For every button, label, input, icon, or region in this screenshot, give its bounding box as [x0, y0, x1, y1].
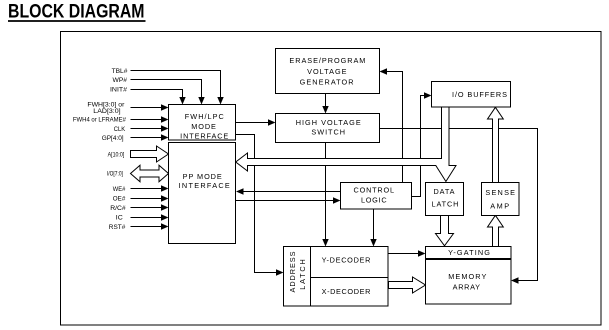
svg-text:MEMORY: MEMORY	[448, 272, 486, 281]
svg-text:SENSE: SENSE	[485, 188, 515, 197]
svg-text:AMP: AMP	[490, 202, 509, 211]
wire FWH/LPC to ADDRESS LATCH	[236, 135, 284, 276]
svg-text:I/O[7:0]: I/O[7:0]	[107, 171, 123, 178]
svg-text:CONTROL: CONTROL	[354, 185, 395, 194]
svg-text:ERASE/PROGRAM: ERASE/PROGRAM	[289, 56, 365, 65]
svg-text:RST#: RST#	[109, 224, 126, 231]
svg-text:IC: IC	[116, 215, 123, 222]
bus arrow A[10:0]	[131, 146, 169, 162]
svg-text:I/O BUFFERS: I/O BUFFERS	[452, 90, 507, 99]
bus arrow SENSE AMP to I/O BUFFERS	[488, 107, 504, 182]
wire OE# input	[131, 195, 169, 201]
wire WE# input	[131, 185, 169, 191]
wire PP MODE to CONTROL LOGIC	[236, 197, 341, 203]
wire HIGH VOLTAGE SWITCH to Y-DECODER	[322, 143, 328, 247]
block HIGH VOLTAGE SWITCH	[276, 114, 380, 143]
svg-text:HIGH VOLTAGE: HIGH VOLTAGE	[296, 118, 361, 127]
bus arrow Y-GATING to SENSE AMP	[488, 215, 504, 246]
svg-text:GP[4:0]: GP[4:0]	[102, 135, 124, 142]
svg-text:BLOCK DIAGRAM: BLOCK DIAGRAM	[8, 1, 145, 23]
svg-text:FWH4 or LFRAME#: FWH4 or LFRAME#	[73, 117, 126, 124]
wire ERASE/PROGRAM to HIGH VOLTAGE SWITCH	[322, 94, 328, 114]
svg-text:GENERATOR: GENERATOR	[300, 77, 354, 86]
wire INIT# to FWH/LPC top	[131, 90, 186, 105]
block FWH/LPC MODE INTERFACE	[169, 105, 236, 141]
svg-text:WP#: WP#	[113, 77, 128, 84]
svg-text:LATCH: LATCH	[432, 199, 459, 208]
wire Y-DECODER to Y-GATING	[388, 250, 426, 256]
svg-text:Y-DECODER: Y-DECODER	[322, 256, 371, 265]
svg-text:WE#: WE#	[113, 186, 126, 193]
svg-text:LAD[3:0]: LAD[3:0]	[93, 108, 120, 115]
svg-text:ARRAY: ARRAY	[453, 283, 480, 292]
svg-text:INTERFACE: INTERFACE	[180, 132, 228, 141]
svg-text:INTERFACE: INTERFACE	[179, 181, 230, 190]
block ADDRESS LATCH	[284, 247, 311, 307]
wire CONTROL LOGIC to I/O BUFFERS	[412, 92, 432, 196]
wire TBL# to FWH/LPC top	[131, 71, 224, 105]
bus arrow DATA LATCH to Y-GATING	[436, 216, 454, 246]
wire CONTROL LOGIC to PP MODE (left arrow)	[236, 188, 341, 194]
wire FWH4 or LFRAME# input	[131, 116, 169, 122]
wire IC input	[131, 214, 169, 220]
block PP MODE INTERFACE	[169, 143, 236, 244]
wire RST# input	[131, 223, 169, 229]
wire CONTROL LOGIC to ERASE/PROGRAM	[380, 68, 403, 182]
svg-text:DATA: DATA	[433, 187, 454, 196]
outer frame	[61, 32, 602, 326]
wire CONTROL LOGIC to Y-DECODER	[370, 209, 376, 247]
svg-text:ADDRESS: ADDRESS	[288, 251, 297, 292]
svg-text:Y-GATING: Y-GATING	[448, 248, 490, 257]
svg-text:CLK: CLK	[114, 126, 126, 133]
block DATA LATCH	[426, 183, 464, 216]
block MEMORY ARRAY	[426, 260, 512, 305]
title BLOCK DIAGRAM	[8, 1, 146, 23]
svg-text:A[10:0]: A[10:0]	[108, 151, 125, 158]
wire R/C# input	[131, 204, 169, 210]
block X-DECODER	[311, 278, 389, 307]
block ERASE/PROGRAM VOLTAGE GENERATOR	[276, 49, 380, 94]
wire FWH/LPC to HIGH VOLTAGE SWITCH	[236, 119, 276, 125]
svg-text:VOLTAGE: VOLTAGE	[307, 67, 347, 76]
wire GP[4:0] input	[131, 134, 169, 140]
bus connector I/O BUFFERS / PP MODE to DATA LATCH	[236, 107, 456, 182]
svg-text:SWITCH: SWITCH	[311, 127, 345, 136]
wire CLK input	[131, 125, 169, 131]
svg-text:TBL#: TBL#	[112, 68, 128, 75]
svg-text:X-DECODER: X-DECODER	[322, 287, 371, 296]
svg-text:INIT#: INIT#	[110, 87, 127, 94]
bus arrow X-DECODER to MEMORY ARRAY	[389, 277, 426, 293]
block CONTROL LOGIC	[341, 183, 412, 210]
wire HIGH VOLTAGE SWITCH to MEMORY ARRAY	[380, 129, 538, 284]
svg-text:OE#: OE#	[113, 196, 126, 203]
svg-text:MODE: MODE	[191, 122, 216, 131]
block SENSE AMP	[482, 183, 520, 216]
bus arrow I/O[7:0] bidirectional	[131, 165, 169, 182]
wire WP# to FWH/LPC top	[131, 80, 205, 105]
svg-text:LOGIC: LOGIC	[361, 196, 387, 205]
block Y-DECODER	[311, 247, 389, 278]
wire FWH[3:0]/LAD[3:0] input	[131, 104, 169, 110]
block Y-GATING	[426, 247, 512, 259]
block I/O BUFFERS	[432, 82, 511, 108]
svg-text:FWH/LPC: FWH/LPC	[185, 112, 224, 121]
svg-text:R/C#: R/C#	[110, 205, 126, 212]
